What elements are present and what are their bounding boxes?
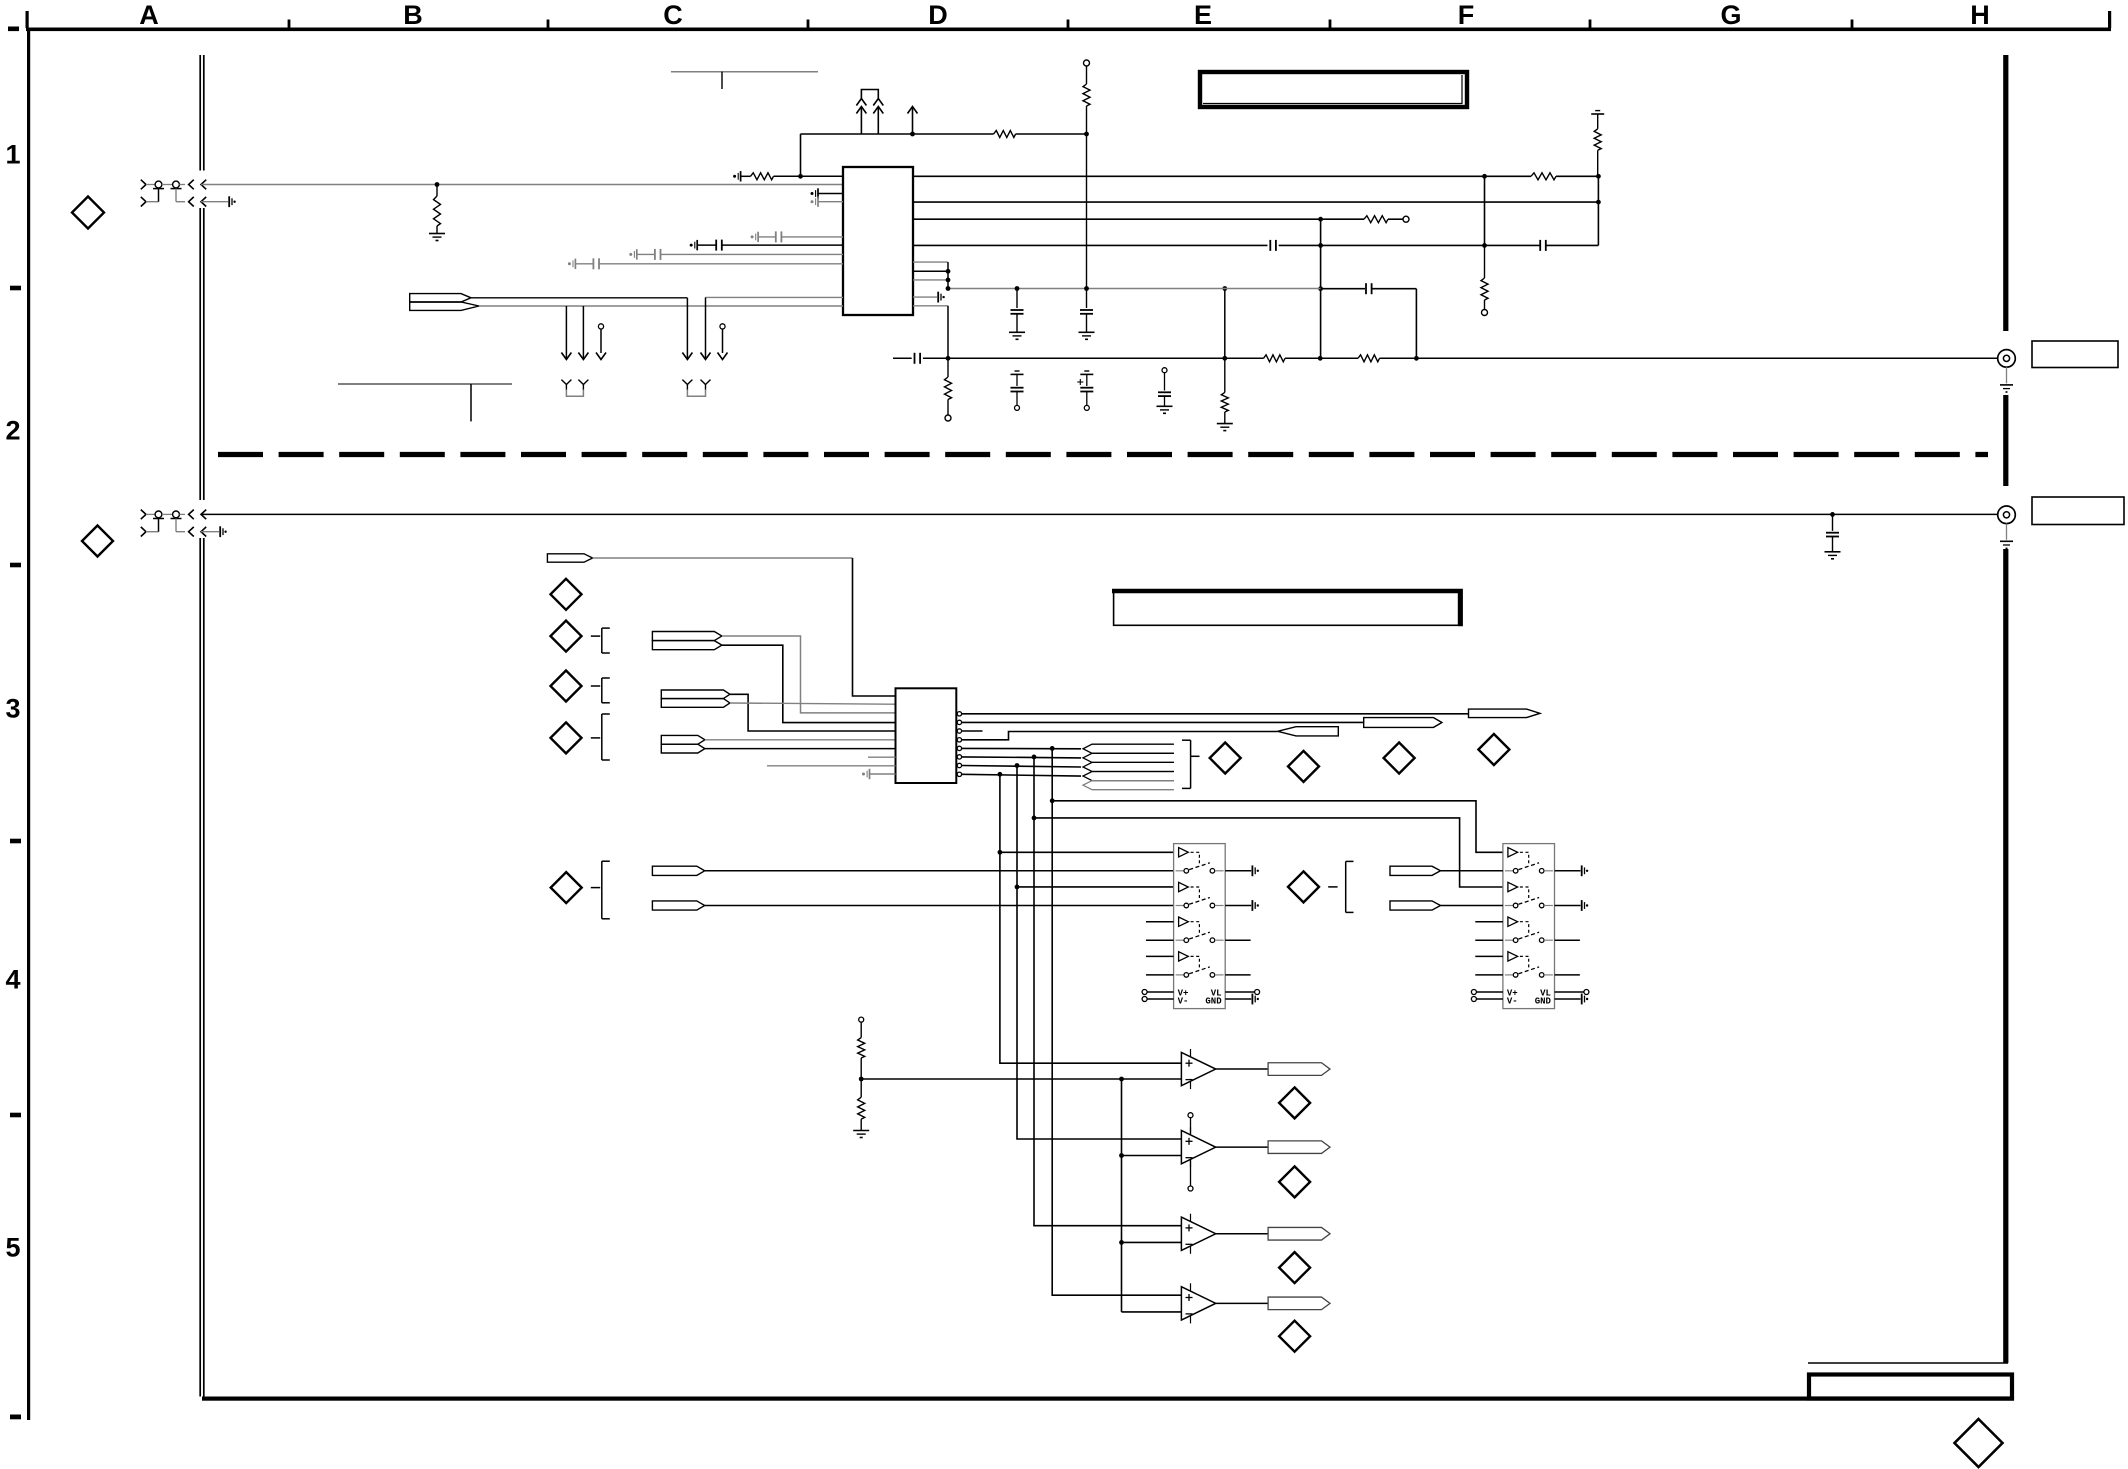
svg-text:D: D [928, 0, 948, 30]
svg-text:V-: V- [1507, 997, 1518, 1007]
svg-text:2: 2 [5, 416, 20, 446]
svg-text:C: C [663, 0, 683, 30]
svg-text:B: B [403, 0, 423, 30]
svg-text:5: 5 [5, 1233, 20, 1263]
svg-text:V-: V- [1178, 997, 1189, 1007]
svg-text:GND: GND [1205, 997, 1222, 1007]
svg-text:A: A [139, 0, 159, 30]
svg-text:1: 1 [5, 140, 20, 170]
svg-text:G: G [1720, 0, 1741, 30]
svg-text:H: H [1970, 0, 1990, 30]
svg-text:F: F [1458, 0, 1475, 30]
svg-text:4: 4 [5, 965, 20, 995]
svg-text:3: 3 [5, 694, 20, 724]
svg-text:GND: GND [1535, 997, 1552, 1007]
svg-text:E: E [1194, 0, 1212, 30]
